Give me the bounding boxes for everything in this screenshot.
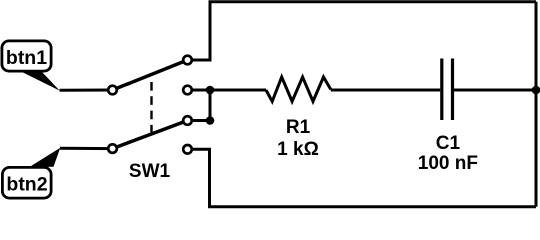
switch SW1	[108, 56, 192, 154]
svg-text:C1: C1	[436, 133, 461, 154]
SW1 contact 1 circle	[183, 56, 192, 65]
SW1 pole A terminal circle	[108, 86, 117, 95]
svg-text:R1: R1	[286, 117, 311, 138]
SW1 contact 3 circle	[183, 116, 192, 125]
junction dot at node A (switch output)	[206, 86, 215, 95]
wire contact3 stub	[193, 119, 210, 122]
svg-text:btn1: btn1	[6, 47, 47, 69]
capacitor C1 left plate	[440, 59, 443, 121]
junction dot at contact3 node	[206, 116, 215, 125]
svg-text:1 kΩ: 1 kΩ	[277, 139, 319, 160]
junction dot at right edge	[532, 86, 540, 95]
wire contact2 stub	[193, 89, 210, 92]
wire C1 to right edge	[454, 89, 536, 92]
wire middle rail to R1	[210, 89, 266, 92]
svg-text:btn2: btn2	[6, 173, 47, 195]
SW1 mechanical coupling dashed line	[150, 82, 152, 136]
svg-text:100 nF: 100 nF	[418, 153, 478, 174]
wire top rail: contact1 stub, up left side, along top edge	[193, 2, 536, 60]
node label btn1	[2, 41, 60, 91]
wire right edge	[535, 2, 538, 207]
wire bottom rail: along bottom edge, up to contact4 stub	[193, 149, 536, 207]
wire btn2 to SW1 pole	[60, 147, 113, 150]
SW1 arm pole B to contact 3	[113, 121, 188, 149]
SW1 contact 2 circle	[183, 86, 192, 95]
SW1 arm pole A to contact 1	[113, 60, 188, 90]
capacitor C1 right plate	[451, 59, 454, 121]
node label btn2	[2, 148, 60, 198]
wire btn1 to SW1 pole	[60, 89, 113, 92]
resistor R1	[266, 77, 331, 101]
SW1 pole B terminal circle	[108, 144, 117, 153]
wire R1 to C1	[331, 89, 440, 92]
SW1 contact 4 circle	[183, 145, 192, 154]
svg-text:SW1: SW1	[129, 161, 171, 182]
wire junction vertical between nodes	[209, 90, 212, 121]
